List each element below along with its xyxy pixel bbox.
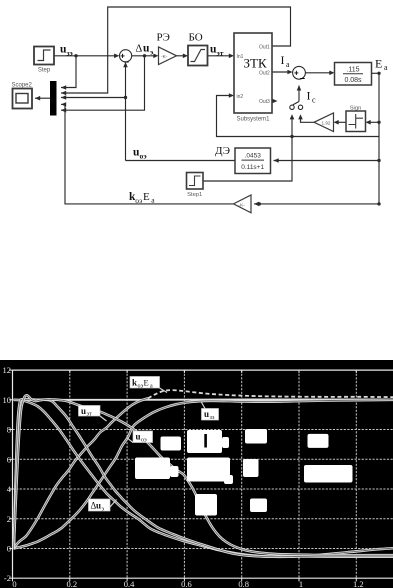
artifact blob I — [195, 494, 217, 516]
svg-text:Subsystem1: Subsystem1 — [236, 117, 270, 123]
wire branch u_ze to mux in1 — [61, 56, 76, 88]
gridline x=356.3 — [355, 370, 357, 578]
svg-text:I: I — [281, 53, 285, 67]
svg-text:a: a — [384, 63, 388, 72]
artifact blob B — [187, 430, 222, 453]
sign block Sign — [346, 106, 366, 132]
arrowhead into DE — [274, 158, 279, 163]
gain 1.92 — [314, 113, 334, 132]
plot label du_e — [89, 499, 117, 513]
mux — [50, 81, 57, 116]
svg-text:зэ: зэ — [67, 49, 73, 58]
transfer fcn DE .0453/0.11s+1 — [235, 148, 271, 174]
gridline y=0 — [13, 548, 393, 550]
arrowhead ZTK Out3 stub — [272, 99, 277, 104]
svg-text:In1: In1 — [237, 54, 244, 60]
arrowhead into -K- gain — [254, 202, 259, 207]
plot label u_et — [79, 406, 107, 422]
svg-text:E: E — [143, 191, 150, 203]
label u_oe — [133, 147, 147, 161]
plot label k_oe*E_a — [130, 377, 167, 393]
node Ea bottom corner — [377, 202, 380, 205]
svg-text:.115: .115 — [346, 67, 359, 74]
svg-text:+: + — [294, 68, 299, 77]
artifact blob H — [304, 465, 353, 483]
gridline x=127.1 — [126, 370, 128, 578]
svg-text:c: c — [312, 96, 316, 105]
svg-text:0.6: 0.6 — [181, 579, 192, 588]
svg-text:оэ: оэ — [140, 152, 147, 161]
artifact blob J — [250, 499, 267, 513]
axis ticks — [9, 370, 356, 581]
svg-text:оэ: оэ — [135, 196, 142, 205]
node step1 crossing — [290, 135, 293, 138]
gridline x=184.4 — [183, 370, 185, 578]
svg-text:Out1: Out1 — [259, 45, 270, 51]
artifact blob B tab — [222, 437, 229, 448]
svg-text:РЭ: РЭ — [157, 32, 170, 44]
svg-text:E: E — [375, 57, 382, 71]
svg-text:0.8: 0.8 — [238, 579, 249, 588]
svg-text:a: a — [150, 384, 153, 390]
wire Ea node from transfer fcn out — [372, 72, 380, 74]
svg-text:u: u — [96, 501, 101, 511]
wire switch lever — [293, 102, 299, 105]
artifact blob G — [243, 459, 259, 477]
summing junction sum2 — [293, 66, 306, 83]
label u_et — [210, 44, 224, 58]
node Ea — [377, 72, 380, 75]
oscilloscope plot panel — [0, 360, 393, 588]
svg-text:6: 6 — [7, 454, 11, 464]
arrowhead into gain RE — [153, 54, 158, 59]
svg-text:оэ: оэ — [141, 438, 147, 444]
subsystem ZTK — [234, 33, 272, 123]
arrowhead into Sign — [366, 120, 371, 125]
artifact blob D — [308, 434, 329, 448]
curve I_a (rise, overshoot, slow decay then dive) — [14, 395, 393, 555]
svg-text:-2: -2 — [4, 573, 11, 583]
curve k_oe*E_a (dashed settling part) — [148, 390, 393, 398]
svg-text:I: I — [307, 89, 311, 103]
svg-text:Step1: Step1 — [187, 192, 202, 198]
svg-text:u: u — [143, 43, 150, 55]
gridline x=241.7 — [241, 370, 243, 578]
wire gain 1.92 out to switch right throw — [301, 118, 315, 123]
node Ea-sign tap — [377, 121, 380, 124]
gain -K- (k_oe) — [234, 195, 252, 213]
svg-text:0.11s+1: 0.11s+1 — [241, 164, 264, 171]
wire Ea to Sign input — [369, 121, 380, 123]
artifact blob C — [245, 429, 267, 444]
wire mux in3 from node on u_oe vertical — [61, 97, 126, 99]
arrowhead into transfer fcn armature — [329, 71, 334, 76]
node du_e branch — [143, 54, 146, 57]
wire Ea bottom feedback to -K- gain — [254, 203, 379, 205]
artifact blob F step — [224, 475, 233, 484]
wire u_ze: Step to sum1 — [54, 55, 116, 57]
artifact blob F — [187, 458, 230, 482]
wire gain RE to BO — [177, 55, 186, 57]
saturation block BO — [188, 32, 208, 66]
arrowhead into gain 1.92 — [334, 120, 339, 125]
plot label u_ze — [201, 402, 219, 422]
artifact blob E step — [170, 466, 179, 477]
gridline x=69.8 — [69, 370, 71, 578]
curve k_oe*E_a (rise, solid part) — [14, 398, 149, 548]
gridline y=2 — [13, 518, 393, 520]
gridline y=4 — [13, 488, 393, 490]
svg-text:0: 0 — [12, 579, 16, 588]
wire sum2 to transfer fcn armature — [305, 72, 331, 74]
wire branch du_e to mux in5 — [61, 56, 145, 110]
svg-text:Out3: Out3 — [259, 99, 270, 105]
svg-text:u: u — [204, 409, 209, 419]
svg-text:-K-: -K- — [161, 54, 168, 60]
arrowhead switch right throw — [298, 114, 303, 119]
svg-text:−: − — [124, 57, 129, 67]
arrowhead switch left throw — [290, 114, 295, 119]
wire ZTK Out2 to sum2 — [272, 71, 290, 73]
wire switch common to sum2 bottom — [298, 86, 300, 102]
plot label u_oe — [127, 431, 153, 444]
label du_e (delta u_e) — [136, 43, 154, 57]
source Step — [34, 47, 54, 74]
arrowhead into sum1 minus — [123, 62, 128, 67]
svg-text:1.92: 1.92 — [322, 121, 331, 126]
arrowhead into sum1 — [114, 54, 119, 59]
label I_c — [307, 89, 317, 105]
arrowhead into ZTK In2 — [229, 93, 234, 98]
arrowhead mux in1 — [61, 85, 66, 90]
y axis tick labels — [3, 365, 12, 583]
transfer fcn armature .115/0.08s — [335, 63, 372, 86]
svg-text:in2: in2 — [237, 94, 244, 100]
svg-text:БО: БО — [189, 32, 203, 44]
svg-text:зэ: зэ — [210, 415, 215, 421]
gridline x=299.0 — [298, 370, 300, 578]
arrowhead mux in2 — [61, 91, 66, 96]
wire -K- out to mux in4 — [61, 104, 234, 203]
wire Step1 to switch left throw — [203, 118, 292, 182]
svg-text:2: 2 — [7, 514, 11, 524]
svg-text:Step: Step — [38, 68, 51, 74]
curve u_oe (slow rise) — [14, 400, 393, 549]
svg-text:10: 10 — [3, 395, 12, 405]
node u_ze branch — [74, 54, 77, 57]
plot axes — [13, 370, 393, 578]
arrowhead into sum2 — [287, 70, 292, 75]
summing junction sum1 — [120, 50, 132, 67]
node Ea-DE tap — [377, 159, 380, 162]
wire mux out to Scope2 — [35, 97, 50, 99]
svg-text:u: u — [81, 406, 86, 416]
svg-text:1: 1 — [299, 579, 303, 588]
label k_oe*E_a — [129, 191, 155, 205]
svg-text:a: a — [286, 60, 290, 69]
wire Sign out to gain 1.92 — [337, 121, 347, 123]
wire Ea to ZTK In2 — [217, 96, 380, 137]
source Step1 — [187, 173, 204, 199]
svg-text:u: u — [136, 432, 141, 442]
node u_oe tap — [124, 96, 127, 99]
svg-text:Δ: Δ — [136, 44, 143, 55]
gain RE (regulator) — [157, 32, 177, 65]
svg-text:эт: эт — [87, 412, 93, 418]
curve u_et (saturation then decay) — [14, 399, 393, 556]
wire DE output to vertical — [126, 160, 236, 162]
svg-text:ДЭ: ДЭ — [215, 145, 230, 157]
scope Scope2 — [12, 83, 33, 109]
x axis tick labels — [12, 579, 363, 588]
artifact blob B dark slit — [204, 434, 207, 448]
svg-text:Out2: Out2 — [259, 71, 270, 77]
svg-text:12: 12 — [3, 365, 12, 375]
arrowhead mux in4 — [61, 102, 66, 107]
svg-text:8: 8 — [7, 425, 11, 435]
arrowhead mux in5 — [61, 108, 66, 113]
wire BO to ZTK In1 — [208, 55, 232, 57]
svg-text:Scope2: Scope2 — [12, 83, 33, 89]
gridline y=10 — [13, 399, 393, 401]
wire Ea vertical bus — [378, 73, 380, 204]
gridline y=8 — [13, 429, 393, 431]
svg-text:0.08s: 0.08s — [344, 77, 362, 84]
label u_ze — [60, 44, 73, 58]
svg-text:0: 0 — [7, 544, 11, 554]
wire sum1 to gain RE — [132, 55, 155, 57]
svg-text:-K-: -K- — [239, 202, 246, 208]
svg-text:−: − — [300, 74, 305, 84]
artifact blob E — [135, 458, 170, 480]
svg-text:1.2: 1.2 — [353, 579, 364, 588]
wire u_oe vertical: DE output up to sum1 minus input — [125, 65, 127, 161]
arrowhead into Scope2 — [35, 96, 40, 101]
svg-text:эт: эт — [217, 49, 224, 58]
artifact blob A — [161, 437, 182, 451]
arrowhead into sum2 from switch — [297, 85, 302, 90]
svg-text:ЗТК: ЗТК — [244, 56, 267, 71]
label I_a — [281, 53, 291, 69]
svg-text:э: э — [102, 507, 105, 513]
arrowhead into ZTK In1 — [229, 54, 234, 59]
svg-text:k: k — [132, 378, 137, 388]
arrowhead mux in3 — [61, 95, 66, 100]
svg-text:E: E — [144, 378, 149, 388]
svg-text:0.2: 0.2 — [66, 579, 77, 588]
node after -K- arrow — [258, 202, 261, 205]
svg-text:0.4: 0.4 — [124, 579, 135, 588]
gridline y=6 — [13, 458, 393, 460]
arrowhead into BO — [183, 54, 188, 59]
manual switch contacts — [290, 105, 303, 109]
svg-text:.0453: .0453 — [245, 153, 262, 160]
wire ZTK Out1 feedback top loop to mux in2 — [61, 7, 291, 93]
curve u_ze step reference (flat 10) — [14, 399, 393, 401]
svg-text:э: э — [150, 48, 153, 57]
curve du_e (early decay) — [14, 400, 393, 557]
wire Ea to DE input — [274, 160, 380, 162]
label E_a — [375, 57, 388, 73]
svg-text:Sign: Sign — [350, 106, 362, 112]
